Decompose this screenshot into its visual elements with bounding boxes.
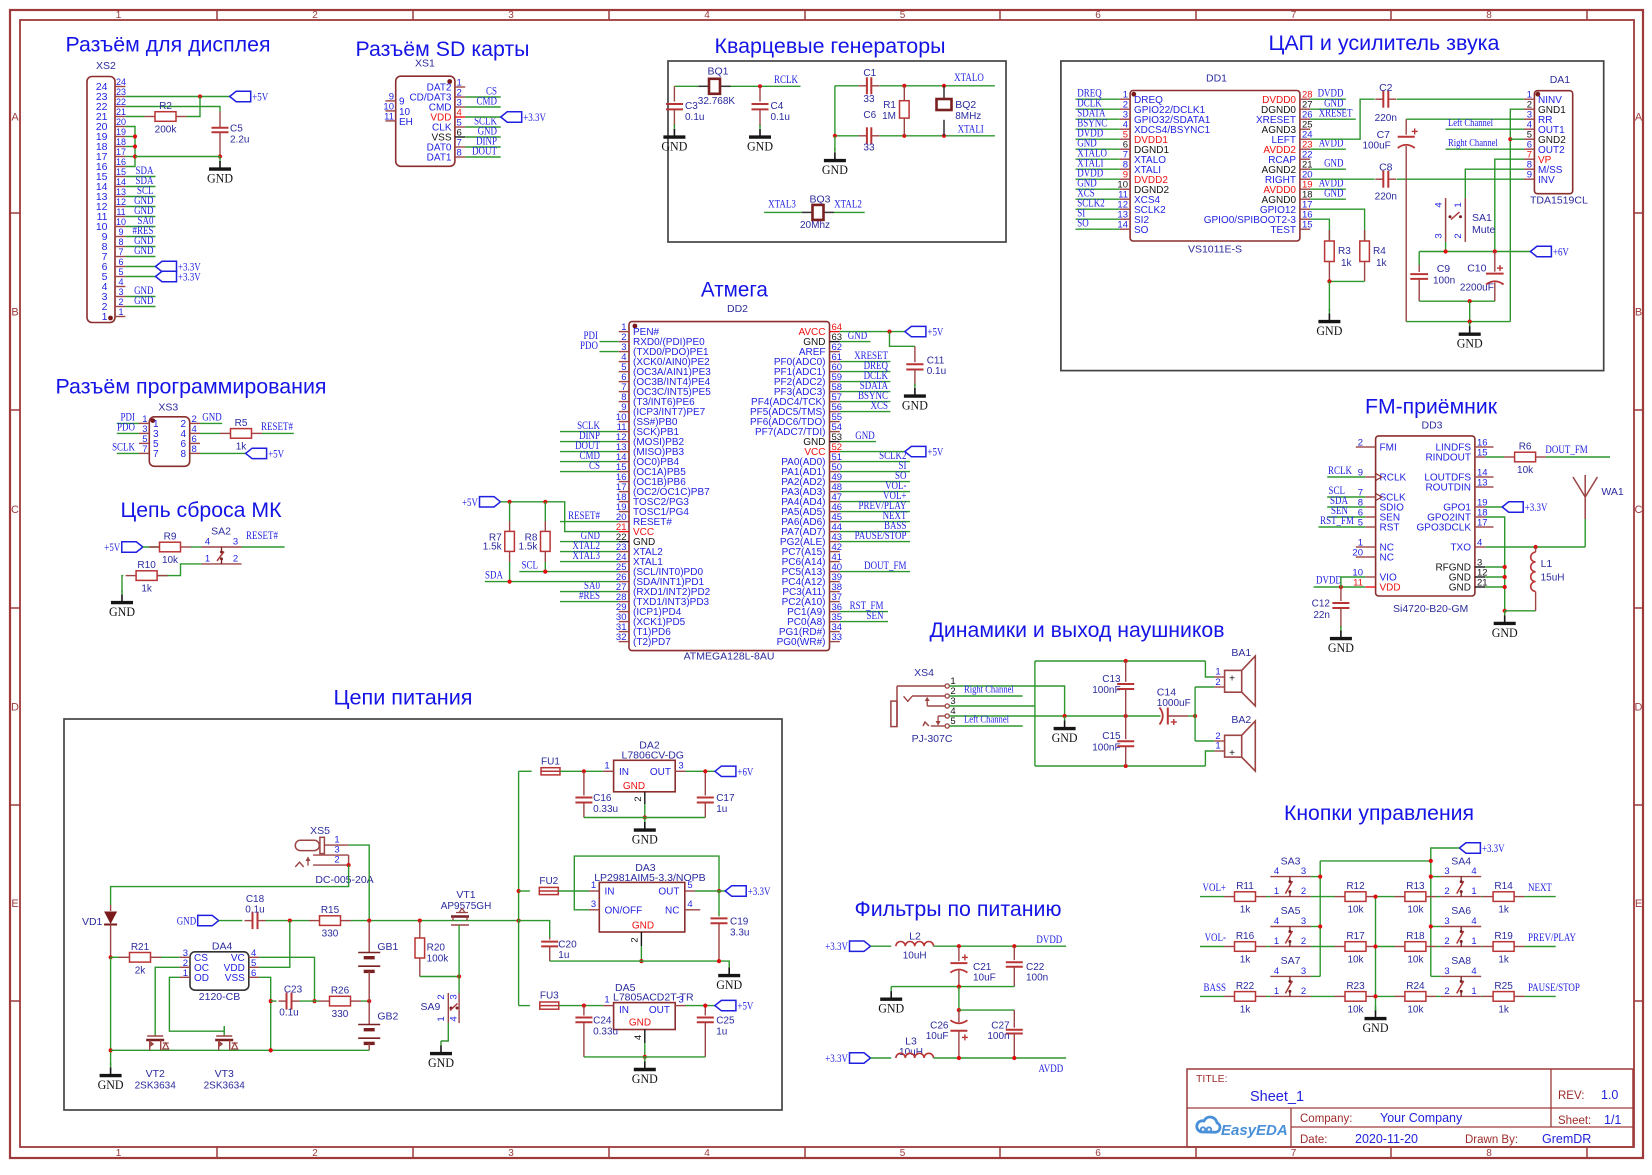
pin 6 DD2 (OC3B/INT4)PE4 [619,372,711,388]
ground [747,125,773,154]
svg-text:1: 1 [1471,986,1476,997]
svg-text:(T2)PD7: (T2)PD7 [633,637,671,648]
wire to ground [834,136,836,151]
svg-text:3: 3 [1444,966,1449,977]
svg-text:Right Channel: Right Channel [964,684,1014,696]
pin 2 DD3 FMI [1358,438,1397,454]
svg-text:2: 2 [233,553,238,564]
wire to VIO [1341,577,1365,587]
junction [517,919,521,923]
wire to R right [1481,946,1483,948]
wire DD1 GND [1310,108,1346,110]
junction [269,1048,273,1052]
svg-text:1: 1 [1274,986,1279,997]
pin 36 DD2 PC1(A9) [787,602,842,618]
svg-text:3: 3 [233,537,238,548]
svg-text:12: 12 [116,197,126,207]
wire +3.3V to L2 [871,945,892,947]
junction [717,889,721,893]
connector XS2 [87,60,116,323]
svg-text:2k: 2k [135,965,147,976]
svg-text:Разъём для дисплея: Разъём для дисплея [66,33,271,57]
svg-text:3.3u: 3.3u [730,927,749,938]
svg-text:1k: 1k [141,584,153,595]
svg-text:PAUSE/STOP: PAUSE/STOP [855,530,907,542]
wire pin12 GND [125,206,155,208]
wire to FU3 [519,1005,530,1007]
wire to right switch [1436,946,1441,948]
pin 50 DD2 PA1(AD1) [781,462,842,478]
wire RINDOUT to R6 [1485,456,1504,458]
wire R2 to +5V node [187,97,201,117]
svg-text:ЦАП и усилитель звука: ЦАП и усилитель звука [1269,31,1500,55]
svg-text:15: 15 [116,167,126,177]
svg-text:GND: GND [109,604,135,619]
wire pins 20-16 bracket [125,127,135,167]
svg-text:330: 330 [332,1009,349,1020]
pin 1 DA1 NINV [1524,90,1562,106]
ground [1052,716,1078,745]
ground [632,1057,658,1086]
svg-text:BQ1: BQ1 [707,66,728,78]
wire left vertical [1034,661,1036,766]
pin 3 DA2 OUT [675,760,685,771]
wire to C26 node [958,987,960,1011]
svg-text:SA5: SA5 [1281,905,1301,917]
power flag +3.3V [156,271,202,283]
svg-text:Date:: Date: [1300,1134,1328,1146]
svg-text:L3: L3 [905,1036,917,1048]
svg-text:2120-CB: 2120-CB [199,991,240,1003]
pin 16 XS2 [96,157,126,173]
wire XS1 pin3 CMD [465,106,501,108]
fuse FU1 [541,756,560,775]
svg-text:VOL-: VOL- [1205,932,1227,944]
power flag +3.3V [156,261,202,273]
svg-text:AVDD: AVDD [1038,1063,1063,1075]
svg-text:2SK3634: 2SK3634 [135,1081,177,1092]
svg-text:R17: R17 [1346,931,1365,942]
pin 13 XS2 [96,187,126,203]
inductor L3 coil [896,1053,934,1058]
wire to ground [1328,281,1330,311]
wire DA5 GND down [644,1043,646,1057]
svg-text:+3.3V: +3.3V [825,941,848,953]
wire DD2 VOL+ [840,501,910,503]
svg-text:3: 3 [1301,866,1306,877]
pin 3 DA1 RR [1524,110,1552,126]
svg-text:1: 1 [604,995,609,1006]
svg-text:Динамики и выход наушников: Динамики и выход наушников [930,618,1225,642]
svg-text:INV: INV [1538,175,1555,186]
junction [957,944,961,948]
svg-text:AP9575GH: AP9575GH [441,901,492,912]
svg-text:GND: GND [1363,1020,1389,1035]
svg-text:C16: C16 [593,793,612,804]
wire XS5 pin1 down [349,845,370,921]
svg-text:2: 2 [630,937,641,942]
svg-text:WA1: WA1 [1601,486,1624,498]
wire DD2 VOL- [840,491,910,493]
resistor R3 [1325,230,1353,281]
connector XS3 [149,402,189,467]
wire BQ1 to RCLK [731,85,801,87]
svg-text:DVDD: DVDD [1316,575,1342,587]
wire C8 to DA1 INV [1397,178,1524,180]
pin 1 DD2 PEN# [619,322,660,338]
pin 20 DD1 RIGHT [1265,170,1313,186]
svg-text:GND: GND [1492,625,1518,640]
wire XS4 pin4 [949,715,1064,717]
svg-text:10k: 10k [1517,465,1534,476]
wire XS4 pin3 [949,705,1035,707]
pin 12 DD2 (MOSI)PB2 [616,432,685,448]
svg-text:33: 33 [863,143,875,154]
resistor R11 [1224,881,1266,916]
pin 10 DD3 VIO [1352,568,1397,584]
wire NEXT [1525,896,1556,898]
svg-text:ON/OFF: ON/OFF [605,906,643,917]
svg-text:C6: C6 [863,110,876,121]
svg-text:R4: R4 [1373,246,1386,257]
wire Left Channel [949,725,1022,727]
svg-text:7: 7 [118,247,123,257]
transistor VT1 [441,889,492,977]
svg-text:5: 5 [900,1148,906,1159]
svg-text:C1: C1 [863,68,876,79]
svg-text:FMI: FMI [1380,443,1397,454]
wire VCC52 to +5V [840,451,905,453]
svg-text:R1: R1 [883,100,896,111]
svg-text:C11: C11 [927,356,945,367]
crystal BQ3 [802,205,834,220]
wire XS5 to VD1 [111,865,349,905]
svg-text:4: 4 [1274,916,1279,927]
wire DD1 XRESET [1310,118,1356,120]
svg-text:0.33u: 0.33u [593,804,618,815]
junction [758,84,762,88]
svg-text:10k: 10k [162,555,179,566]
svg-text:C21: C21 [973,962,992,973]
junction [1339,585,1343,589]
junction [1193,714,1197,718]
svg-text:+3.3V: +3.3V [825,1053,848,1065]
svg-text:GND: GND [661,139,687,154]
junction [1318,875,1322,879]
pin 18 DD3 GPO2INT [1427,508,1487,524]
svg-text:R14: R14 [1494,881,1513,892]
inductor L2 [903,931,927,962]
wire PDI [117,422,139,424]
svg-text:GND: GND [1316,323,1342,338]
svg-text:BQ2: BQ2 [955,99,976,111]
junction [1429,859,1433,863]
svg-text:ROUTDIN: ROUTDIN [1425,483,1471,494]
wire to R mid1 [1311,995,1335,997]
wire OUT to +6V [686,770,715,772]
svg-text:1k: 1k [236,441,248,452]
pin 25 DD1 AGND3 [1262,120,1313,136]
svg-text:8: 8 [1486,1148,1492,1159]
pin 9 XS2 [102,227,126,243]
svg-text:10uH: 10uH [903,951,927,962]
svg-text:1: 1 [1274,936,1279,947]
wire DD2 XTAL3 [560,561,619,563]
svg-text:L2: L2 [909,931,921,943]
switch SA7 [1270,955,1311,997]
junction [1444,249,1448,253]
wire DD1 pin9 DVDD [1076,178,1120,180]
svg-text:BASS: BASS [1204,982,1226,994]
wire XS4 pin1 [949,686,1064,716]
wire ON/OFF loop [574,856,719,910]
pin ext NC20 [1356,556,1366,558]
pin 16 DD1 GPIO0/SPIBOOT2-3 [1204,210,1313,226]
junction [887,330,891,334]
wire DD2 XRESET [840,361,891,363]
resistor R21 [119,942,161,977]
pin 1 XS2 [102,307,126,323]
title block Date [1300,1132,1591,1146]
svg-text:4: 4 [1477,538,1482,549]
resistor R15 [309,905,351,940]
wire trunk vertical [518,771,520,1005]
svg-text:GPO3DCLK: GPO3DCLK [1417,523,1472,534]
junction [508,580,512,584]
resistor R22 [1224,981,1266,1016]
wire DA5 gnd rail [584,1056,705,1058]
capacitor C12 [1312,587,1350,628]
svg-text:2.2u: 2.2u [230,135,249,146]
svg-text:1k: 1k [1240,1004,1252,1015]
svg-text:GND: GND [177,916,196,928]
connector XS5 DC-005-20A [295,825,373,886]
title block REV [1558,1088,1618,1102]
svg-text:FU1: FU1 [541,756,560,767]
pin 19 XS2 [96,127,126,143]
wire to bottom rail [1469,301,1471,321]
pin 6 XS1 VSS [431,128,465,144]
pin 7 DD1 XTALO [1120,150,1167,166]
capacitor C16 [575,771,618,817]
svg-text:DA4: DA4 [212,941,233,953]
pin 2 DA3 GND [630,932,642,946]
svg-text:RCLK: RCLK [774,74,798,86]
wire DA2 GND down [644,804,646,818]
pin 15 DD1 TEST [1270,220,1312,236]
pin 7 XS3 [139,444,159,460]
svg-text:5: 5 [118,267,123,277]
wire SCL to SCLK [1327,496,1365,498]
pin 14 DD2 (OC0)PB4 [616,452,680,468]
svg-text:0.1u: 0.1u [245,905,264,916]
svg-text:2: 2 [312,10,318,21]
wire R21 to CS [161,956,180,958]
wire DD2 SCLK2 [840,461,910,463]
power flag GND [177,915,219,927]
svg-text:R24: R24 [1406,981,1425,992]
svg-text:NEXT: NEXT [1528,882,1552,894]
wire to C20 [519,921,550,938]
svg-text:Company:: Company: [1300,1113,1352,1125]
power flag +6V [1530,246,1569,258]
svg-text:2: 2 [1301,886,1306,897]
wire to switch [1266,946,1270,948]
IC DD2 ATMEGA128L-8AU [629,303,830,663]
svg-text:OUT: OUT [649,1005,670,1016]
svg-text:0.1u: 0.1u [927,366,946,377]
wire C6 to XTALI [879,135,995,137]
ground [1328,626,1354,655]
svg-text:1u: 1u [716,1026,727,1037]
svg-text:GND: GND [632,1071,658,1086]
pin 12 DD1 SCLK2 [1117,200,1166,216]
wire DD2 BASS [840,531,910,533]
wire to BA2 pin1 [1205,751,1214,766]
pin ext FMI [1356,446,1366,448]
pin 11 XS1 [384,111,396,122]
svg-text:14: 14 [116,177,126,187]
svg-text:1: 1 [1215,667,1220,678]
pin 39 DD2 PC4(A12) [782,572,842,588]
svg-text:6: 6 [118,257,123,267]
svg-text:7: 7 [1291,1148,1297,1159]
wire DD2 XCS [840,411,891,413]
wire C7 to DA1 RR [1406,118,1524,120]
pin 18 DD1 AGND0 [1262,190,1313,206]
pin 23 DD1 AVDD2 [1263,140,1312,156]
fuse FU2 [539,876,558,895]
svg-text:32: 32 [616,632,627,643]
pin 47 DD2 PA4(AD4) [781,492,842,508]
pin 58 DD2 PF3(ADC3) [774,382,842,398]
wire GND pin2 [200,422,222,424]
svg-text:3: 3 [1444,916,1449,927]
svg-text:VT3: VT3 [215,1068,234,1080]
junction [1468,299,1472,303]
pin 7 XS1 DAT0 [427,138,466,154]
svg-text:C24: C24 [593,1016,612,1027]
svg-text:RESET#: RESET# [568,510,600,522]
svg-text:C18: C18 [246,894,265,905]
pin 54 DD2 PF7(ADC7/TDI) [755,422,842,438]
svg-text:XS4: XS4 [914,667,934,679]
pin 5 DA4 VDD [224,958,259,974]
wire pin10 SA0 [125,226,155,228]
svg-text:DOUT_FM: DOUT_FM [1545,444,1587,456]
wire RFGND [1485,566,1505,568]
transistor VT2 [135,1026,177,1092]
svg-text:1u: 1u [558,950,569,961]
svg-text:7: 7 [153,449,159,460]
wire to BA1 pin1 [1205,661,1214,677]
svg-text:E: E [1635,898,1642,910]
pin 4 DD1 XDCS4/BSYNC1 [1120,120,1211,136]
svg-text:2: 2 [1444,886,1449,897]
wire pin17 to C5 node [135,156,220,158]
capacitor C3 [666,86,704,126]
pin 35 DD2 PC0(A8) [787,612,842,628]
svg-text:9: 9 [399,96,405,107]
svg-text:C25: C25 [716,1016,735,1027]
wire pin2 GND [125,306,155,308]
pin 4 XS2 [102,277,126,293]
ground [1492,611,1518,640]
svg-text:GND: GND [1457,336,1483,351]
wire pin8 GND [125,246,155,248]
junction [367,919,371,923]
pin 59 DD2 PF2(ADC2) [774,372,842,388]
svg-text:GB2: GB2 [377,1011,398,1023]
junction [508,500,512,504]
junction [717,959,721,963]
junction [582,769,586,773]
svg-text:220n: 220n [1375,192,1397,203]
power flag +5V [905,446,944,458]
capacitor C14 [1157,686,1191,725]
svg-text:1k: 1k [1376,258,1388,269]
wire mid trunk to ground [1375,1009,1377,1012]
crystal BQ3 label [800,194,831,232]
power flag +5V [104,542,143,554]
resistor R1 [882,86,909,136]
svg-text:EH: EH [399,117,413,128]
wire DD2 BSYNC [840,401,891,403]
junction [1373,895,1377,899]
wire SA1 to rail [1445,242,1447,252]
wire left trunk [1319,861,1321,977]
svg-text:4: 4 [118,277,123,287]
svg-text:3: 3 [118,287,123,297]
svg-text:R5: R5 [235,418,248,429]
svg-text:2: 2 [1215,677,1220,688]
pin 8 DD2 (T3/INT6)PE6 [619,392,695,408]
pin 16 DD2 (OC1B)PB6 [616,472,686,488]
inductor L1 coil [1531,552,1536,591]
svg-text:NC: NC [665,906,679,917]
svg-text:D: D [1635,702,1643,714]
resistor R10 [126,560,168,595]
pin 18 DD2 TOSC2/PG3 [616,492,689,508]
wire +3.3V trunk [1431,848,1460,976]
pin 9 DD3 RCLK [1358,468,1407,484]
switch SA1 Mute [1434,198,1496,242]
svg-text:VT2: VT2 [146,1068,165,1080]
wire DD2 RESET# [560,521,619,523]
wire to antenna [1584,519,1586,547]
wire OUT2 [1446,148,1524,150]
wire GND1 down [1510,109,1524,321]
wire OC to VT2 gate [155,967,179,1026]
wire to R mid1 [1311,946,1335,948]
pin ext NC1 [1356,546,1366,548]
svg-text:Left Channel: Left Channel [964,714,1009,726]
pin 14 DD1 SO [1117,220,1148,236]
wire DD1 GND [1310,198,1346,200]
capacitor C19 [711,891,750,961]
svg-text:24: 24 [116,77,126,87]
capacitor C8 label [1375,162,1397,203]
svg-text:GND: GND [1328,640,1354,655]
pin 28 DD2 (TXD1/INT3)PD3 [616,592,710,608]
DAC block outline [1061,61,1604,371]
pin 14 XS2 [96,177,126,193]
svg-text:#RES: #RES [579,590,600,602]
junction [1468,320,1472,324]
svg-text:Sheet:: Sheet: [1558,1115,1591,1127]
wire DD2 PAUSE/STOP [840,541,910,543]
pin 10 DD2 (SS#)PB0 [616,412,678,428]
